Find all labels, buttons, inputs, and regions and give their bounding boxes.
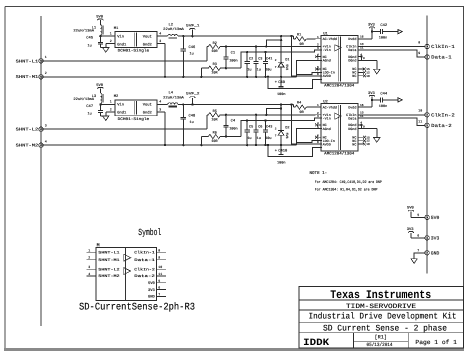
title block frame bbox=[299, 287, 464, 349]
capacitor C41 10u bbox=[264, 51, 266, 53]
svg-text:ClkIn-1: ClkIn-1 bbox=[134, 251, 155, 256]
svg-text:2: 2 bbox=[275, 59, 277, 62]
svg-text:For AMC1204: C49,C410,D1,D2 ar: For AMC1204: C49,C410,D1,D2 are DNP bbox=[315, 180, 383, 185]
capacitor C42 100n (Dvdd bypass) bbox=[372, 31, 381, 33]
svg-text:4: 4 bbox=[159, 31, 161, 35]
svg-text:8: 8 bbox=[317, 141, 319, 144]
svg-text:DCH01-Single: DCH01-Single bbox=[118, 117, 150, 122]
svg-text:AMC1204/1304: AMC1204/1304 bbox=[324, 152, 355, 157]
svg-text:DCH01-Single: DCH01-Single bbox=[118, 49, 150, 54]
svg-text:C4: C4 bbox=[231, 119, 236, 124]
svg-text:SHNT-M1: SHNT-M1 bbox=[16, 75, 39, 80]
svg-text:C47: C47 bbox=[86, 104, 93, 109]
svg-text:R6: R6 bbox=[213, 131, 217, 136]
svg-text:R2: R2 bbox=[213, 41, 217, 46]
ground (input side of M1) bbox=[103, 48, 109, 53]
resistor R1 0R (series to AC-Vhdd) bbox=[293, 36, 295, 39]
svg-text:L4: L4 bbox=[169, 91, 174, 96]
svg-text:ClkIn-2: ClkIn-2 bbox=[431, 113, 455, 119]
svg-text:Vout: Vout bbox=[143, 34, 152, 39]
svg-text:SHNT-L2: SHNT-L2 bbox=[16, 128, 39, 133]
inductor L4 22uH/13mA bbox=[157, 104, 168, 106]
svg-text:C48: C48 bbox=[189, 114, 197, 119]
svg-text:5: 5 bbox=[158, 279, 160, 283]
wire AC-Vhdd branch bbox=[280, 35, 282, 37]
svg-text:7: 7 bbox=[417, 248, 419, 252]
svg-text:16: 16 bbox=[360, 36, 364, 39]
svg-text:11: 11 bbox=[360, 115, 364, 118]
svg-text:1: 1 bbox=[45, 55, 47, 59]
resistor R5 10R bbox=[208, 113, 220, 117]
svg-text:Gnd1: Gnd1 bbox=[117, 111, 127, 116]
ground (input side of M2) bbox=[103, 116, 109, 121]
svg-text:GND: GND bbox=[148, 295, 156, 300]
svg-text:SD Current Sense - 2 phase: SD Current Sense - 2 phase bbox=[323, 324, 447, 334]
svg-text:100n: 100n bbox=[379, 104, 387, 109]
wire PSU1 Gnd2 to isolated ground rail bbox=[157, 43, 165, 45]
svg-text:10R: 10R bbox=[211, 71, 218, 76]
svg-text:5VF_1: 5VF_1 bbox=[186, 23, 200, 28]
wire PSU1 Gnd1 bbox=[106, 43, 115, 45]
power flag 5VF_1 (isolated 5V) bbox=[178, 35, 294, 37]
svg-text:AC-Vhdd: AC-Vhdd bbox=[323, 105, 337, 110]
svg-text:4: 4 bbox=[45, 140, 47, 144]
svg-text:3: 3 bbox=[45, 124, 47, 128]
svg-text:SHNT-L1: SHNT-L1 bbox=[98, 251, 120, 256]
svg-text:1: 1 bbox=[110, 100, 112, 104]
wire PSU2 Gnd2 to isolated ground rail bbox=[157, 111, 165, 113]
svg-text:22uH/13mA: 22uH/13mA bbox=[163, 96, 185, 101]
power flag 5VF_2 (isolated 5V) bbox=[178, 104, 294, 106]
svg-text:10u: 10u bbox=[265, 136, 271, 141]
svg-text:10R: 10R bbox=[211, 139, 218, 144]
svg-text:U1: U1 bbox=[323, 31, 328, 36]
svg-text:AGnd: AGnd bbox=[323, 127, 331, 132]
svg-text:6: 6 bbox=[417, 233, 419, 237]
svg-text:10: 10 bbox=[158, 265, 162, 269]
svg-text:3: 3 bbox=[317, 47, 319, 50]
symbol pin 10 ClkIn-2 bbox=[157, 268, 167, 270]
ground (board) bbox=[411, 259, 417, 264]
svg-text:Gnd1: Gnd1 bbox=[117, 42, 127, 47]
pin stubs U1 right NC bbox=[358, 68, 363, 70]
wire AVSS return bbox=[268, 77, 322, 89]
wire LDO-In pin bbox=[297, 141, 322, 143]
svg-text:7: 7 bbox=[275, 66, 277, 69]
resistor R3 10R bbox=[200, 68, 202, 77]
svg-text:C410: C410 bbox=[278, 149, 288, 154]
symbol pin 6 3V3 bbox=[157, 289, 167, 291]
svg-text:1u: 1u bbox=[190, 120, 194, 125]
svg-text:1u: 1u bbox=[247, 136, 251, 141]
capacitor C48 1u (isolated 5V bypass) bbox=[182, 105, 184, 118]
svg-text:SHNT-M1: SHNT-M1 bbox=[98, 258, 120, 263]
svg-text:D2: D2 bbox=[285, 126, 289, 131]
inductor L1 22uH/13mA (vertical) bbox=[100, 25, 102, 35]
svg-text:U2: U2 bbox=[323, 100, 328, 105]
svg-text:NOTE 1-: NOTE 1- bbox=[310, 171, 328, 176]
capacitor C1 100n (differential) bbox=[225, 45, 227, 47]
svg-text:Vout: Vout bbox=[143, 103, 152, 108]
isolated modulator U1 AMC1204/1304 bbox=[321, 35, 358, 83]
svg-text:9: 9 bbox=[363, 126, 365, 129]
wire AGnd pin bbox=[297, 129, 322, 145]
ground (U1 digital) bbox=[374, 69, 380, 74]
svg-text:D1: D1 bbox=[285, 57, 289, 62]
svg-text:5V0: 5V0 bbox=[148, 281, 156, 286]
svg-text:3V3: 3V3 bbox=[407, 227, 415, 232]
svg-text:C6: C6 bbox=[258, 125, 262, 130]
terminal ClkIn-2 bbox=[425, 113, 429, 117]
ground (U2 digital) bbox=[374, 138, 380, 143]
svg-text:NC: NC bbox=[352, 74, 356, 79]
terminal Data-1 bbox=[425, 55, 429, 59]
svg-text:AMC1204/1304: AMC1204/1304 bbox=[324, 83, 355, 88]
wire ClkIn to bus bbox=[358, 46, 425, 48]
svg-text:5VF_2: 5VF_2 bbox=[186, 92, 200, 97]
svg-text:2: 2 bbox=[110, 108, 112, 112]
svg-text:05/13/2014: 05/13/2014 bbox=[367, 342, 393, 348]
svg-text:C2: C2 bbox=[249, 56, 253, 61]
svg-text:4: 4 bbox=[159, 100, 161, 104]
symbol buffer triangle 2 bbox=[124, 268, 131, 275]
inductor L2 22uH/13mA bbox=[157, 35, 168, 37]
terminal SHNT-M2 bbox=[39, 143, 43, 147]
capacitor C2 1u bbox=[246, 51, 248, 53]
capacitor C3 1u bbox=[255, 45, 257, 47]
svg-text:SD-CurrentSense-2ph-R3: SD-CurrentSense-2ph-R3 bbox=[79, 302, 195, 314]
wire AVSS return bbox=[268, 145, 322, 157]
svg-text:AGnd: AGnd bbox=[323, 59, 331, 64]
dc-dc module M1 DCH01-Single bbox=[115, 32, 157, 48]
svg-text:C1: C1 bbox=[231, 50, 236, 55]
svg-text:22uH/13mA: 22uH/13mA bbox=[73, 29, 95, 34]
svg-text:1: 1 bbox=[110, 31, 112, 35]
symbol pin 8 ClkIn-1 bbox=[157, 251, 167, 253]
svg-text:C46: C46 bbox=[189, 45, 197, 50]
svg-text:100n: 100n bbox=[229, 127, 237, 132]
svg-text:100n: 100n bbox=[379, 36, 387, 41]
capacitor C45 1u bbox=[99, 36, 101, 42]
svg-text:C43: C43 bbox=[266, 125, 272, 130]
svg-text:Data-2: Data-2 bbox=[431, 123, 452, 129]
svg-text:3: 3 bbox=[317, 115, 319, 118]
svg-text:-Vin: -Vin bbox=[323, 116, 331, 121]
svg-text:9: 9 bbox=[158, 256, 160, 260]
svg-text:M: M bbox=[97, 243, 100, 249]
svg-text:100n: 100n bbox=[277, 161, 285, 166]
wire Data to bus bbox=[358, 118, 425, 125]
svg-text:5V6: 5V6 bbox=[285, 133, 289, 139]
wire SHNT-M2 rail (isolated analog ground) bbox=[41, 144, 297, 146]
terminal Data-2 bbox=[425, 123, 429, 127]
terminal 5V0 bbox=[411, 216, 425, 218]
pin stubs U2 right NC bbox=[358, 136, 363, 138]
svg-text:3V3: 3V3 bbox=[431, 236, 440, 242]
svg-text:8: 8 bbox=[317, 73, 319, 76]
terminal ClkIn-1 bbox=[425, 44, 429, 48]
wire ClkIn to bus bbox=[358, 114, 425, 116]
svg-text:1u: 1u bbox=[88, 112, 92, 117]
svg-text:1u: 1u bbox=[257, 68, 261, 73]
terminal SHNT-M1 bbox=[39, 75, 43, 79]
svg-text:1u: 1u bbox=[257, 136, 261, 141]
svg-text:Vin: Vin bbox=[117, 34, 124, 39]
resistor R6 10R bbox=[200, 137, 202, 146]
svg-text:GND: GND bbox=[431, 251, 440, 257]
svg-text:7: 7 bbox=[275, 134, 277, 137]
svg-text:For AMC1304: R1,R4,D1,D2 are D: For AMC1304: R1,R4,D1,D2 are DNP bbox=[315, 187, 378, 192]
svg-text:9: 9 bbox=[418, 51, 420, 55]
svg-text:3: 3 bbox=[159, 108, 161, 112]
svg-text:8: 8 bbox=[158, 248, 160, 252]
symbol pin 3 SHNT bbox=[87, 268, 96, 270]
svg-text:SHNT-M2: SHNT-M2 bbox=[16, 144, 39, 149]
svg-text:SHNT-L2: SHNT-L2 bbox=[98, 268, 119, 273]
svg-text:IDDK: IDDK bbox=[303, 337, 329, 348]
svg-text:1u: 1u bbox=[190, 52, 194, 57]
svg-text:3: 3 bbox=[159, 39, 161, 43]
zener diode D2 5V6 bbox=[280, 105, 282, 131]
node PSU1 Vin bbox=[99, 35, 101, 36]
wire -Vin sense line bbox=[241, 118, 322, 136]
capacitor C4 100n (differential) bbox=[225, 114, 227, 116]
svg-text:2: 2 bbox=[45, 71, 47, 75]
svg-text:C45: C45 bbox=[86, 36, 94, 41]
svg-text:9: 9 bbox=[363, 57, 365, 60]
svg-text:16: 16 bbox=[360, 104, 364, 107]
svg-text:AVDD: AVDD bbox=[323, 74, 331, 79]
svg-text:Data-2: Data-2 bbox=[134, 274, 155, 279]
svg-text:R1: R1 bbox=[297, 32, 301, 37]
wire DGnd pins bbox=[358, 124, 361, 126]
svg-text:Dvdd: Dvdd bbox=[348, 37, 356, 42]
svg-text:[R1]: [R1] bbox=[375, 334, 388, 340]
svg-text:10: 10 bbox=[366, 75, 370, 78]
svg-text:DGnd: DGnd bbox=[348, 59, 356, 64]
svg-text:1: 1 bbox=[317, 36, 319, 39]
right terminal bus bbox=[426, 15, 428, 273]
svg-text:R5: R5 bbox=[213, 109, 217, 114]
svg-text:2: 2 bbox=[275, 128, 277, 131]
svg-text:Dvdd: Dvdd bbox=[348, 105, 356, 110]
svg-text:Gnd2: Gnd2 bbox=[143, 42, 152, 47]
svg-text:Gnd2: Gnd2 bbox=[143, 111, 152, 116]
isolated modulator U2 AMC1204/1304 bbox=[321, 104, 358, 152]
svg-text:Data: Data bbox=[348, 48, 356, 53]
wire SHNT-L2 rail to divider bbox=[41, 128, 207, 130]
zener diode D1 5V6 bbox=[280, 36, 282, 62]
no-connect marks U1 left bbox=[315, 55, 318, 58]
svg-text:-Vin: -Vin bbox=[323, 48, 331, 53]
capacitor C49 100n (AVDD bypass) bbox=[280, 77, 282, 86]
svg-text:C42: C42 bbox=[380, 23, 387, 28]
left terminal bus bbox=[40, 16, 42, 326]
svg-text:Data-1: Data-1 bbox=[431, 55, 452, 61]
svg-text:L2: L2 bbox=[169, 22, 174, 27]
svg-text:Vin: Vin bbox=[117, 103, 124, 108]
svg-text:Symbol: Symbol bbox=[138, 227, 161, 238]
capacitor C44 100n (Dvdd bypass) bbox=[372, 99, 381, 101]
svg-text:M1: M1 bbox=[114, 26, 119, 31]
capacitor C5 1u bbox=[246, 119, 248, 121]
wire SHNT-M1 rail (isolated analog ground) bbox=[41, 76, 297, 78]
svg-text:AC-Vhdd: AC-Vhdd bbox=[323, 37, 337, 42]
svg-text:8: 8 bbox=[418, 40, 420, 44]
svg-text:Page 1 of 1: Page 1 of 1 bbox=[415, 339, 457, 346]
terminal GND bbox=[425, 251, 429, 255]
svg-text:ClkIn-2: ClkIn-2 bbox=[134, 268, 155, 273]
wire DGnd pins bbox=[358, 56, 361, 58]
svg-text:3: 3 bbox=[88, 265, 90, 269]
svg-text:7: 7 bbox=[158, 292, 160, 296]
svg-text:3V3: 3V3 bbox=[148, 288, 156, 293]
terminal 3V3 bbox=[411, 237, 425, 239]
svg-text:100n: 100n bbox=[277, 92, 285, 97]
capacitor C410 100n (AVDD bypass) bbox=[280, 145, 282, 154]
svg-text:C44: C44 bbox=[380, 92, 388, 97]
svg-text:22uH/13mA: 22uH/13mA bbox=[73, 97, 95, 102]
output port arrow (5VF_2 domain 3V3) bbox=[398, 98, 402, 102]
capacitor C6 1u bbox=[255, 114, 257, 116]
svg-text:C5: C5 bbox=[249, 125, 253, 130]
symbol pin 1 SHNT bbox=[87, 251, 96, 253]
wire AVDD supply from isolated 5V bbox=[290, 103, 292, 105]
svg-text:SHNT-L1: SHNT-L1 bbox=[16, 59, 39, 64]
capacitor C43 10u bbox=[264, 119, 266, 121]
svg-text:11: 11 bbox=[418, 120, 422, 124]
resistor R2 10R bbox=[208, 44, 220, 48]
wire AVDD supply from isolated 5V bbox=[290, 35, 292, 37]
symbol pin 9 Data-1 bbox=[157, 259, 167, 261]
capacitor C46 1u (isolated 5V bypass) bbox=[182, 36, 184, 49]
svg-text:2: 2 bbox=[110, 39, 112, 43]
svg-text:4: 4 bbox=[88, 272, 90, 276]
wire SHNT-L1 rail to divider bbox=[41, 60, 207, 62]
symbol pin 7 GND bbox=[157, 295, 167, 297]
svg-text:100n: 100n bbox=[229, 58, 237, 63]
svg-text:C49: C49 bbox=[278, 80, 285, 85]
wire Data to bus bbox=[358, 50, 425, 57]
svg-text:SHNT-M2: SHNT-M2 bbox=[98, 274, 119, 279]
symbol pin 4 SHNT bbox=[87, 275, 96, 277]
wire LDO-In pin bbox=[297, 72, 322, 74]
wire AC-Vhdd branch bbox=[280, 103, 282, 105]
node PSU2 Vin bbox=[99, 103, 101, 104]
symbol pin 2 SHNT bbox=[87, 259, 96, 261]
svg-text:10u: 10u bbox=[265, 68, 271, 73]
wire AGnd pin bbox=[297, 60, 322, 76]
svg-text:5V0: 5V0 bbox=[431, 215, 440, 221]
terminal SHNT-L2 bbox=[39, 127, 43, 131]
svg-text:1u: 1u bbox=[88, 43, 92, 48]
svg-text:M2: M2 bbox=[114, 94, 119, 99]
svg-text:1: 1 bbox=[317, 104, 319, 107]
svg-text:5V6: 5V6 bbox=[285, 64, 289, 70]
svg-text:1u: 1u bbox=[247, 68, 251, 73]
svg-text:2: 2 bbox=[88, 256, 90, 260]
symbol box SD-CurrentSense-2ph-R3 bbox=[96, 248, 157, 301]
svg-text:Texas Instruments: Texas Instruments bbox=[330, 289, 431, 302]
svg-text:C41: C41 bbox=[266, 56, 272, 61]
inductor L3 22uH/13mA (vertical) bbox=[100, 93, 102, 103]
dc-dc module M2 DCH01-Single bbox=[115, 100, 157, 116]
svg-text:R3: R3 bbox=[213, 62, 217, 67]
svg-text:C3: C3 bbox=[258, 56, 262, 61]
capacitor C47 1u bbox=[99, 105, 101, 111]
svg-text:R4: R4 bbox=[297, 101, 301, 106]
svg-text:11: 11 bbox=[158, 272, 162, 276]
svg-text:DGnd: DGnd bbox=[348, 127, 356, 132]
svg-text:1: 1 bbox=[88, 248, 90, 252]
svg-text:5: 5 bbox=[417, 213, 419, 217]
svg-text:ClkIn-1: ClkIn-1 bbox=[431, 44, 455, 50]
no-connect marks U2 left bbox=[315, 123, 318, 126]
symbol buffer triangle 1 bbox=[124, 254, 131, 261]
output port arrow (5VF_1 domain 3V3) bbox=[398, 30, 402, 34]
symbol pin 11 Data-2 bbox=[157, 275, 167, 277]
svg-text:Data: Data bbox=[348, 116, 356, 121]
resistor R4 0R (series to AC-Vhdd) bbox=[293, 105, 295, 108]
wire PSU2 Gnd1 bbox=[106, 111, 115, 113]
svg-text:10: 10 bbox=[418, 109, 422, 113]
svg-text:AVDD: AVDD bbox=[323, 142, 331, 147]
wire -Vin sense line bbox=[241, 50, 322, 68]
svg-text:NC: NC bbox=[352, 142, 356, 147]
svg-text:10R: 10R bbox=[211, 49, 218, 54]
svg-text:6: 6 bbox=[158, 286, 160, 290]
symbol pin 5 5V0 bbox=[157, 282, 167, 284]
svg-text:10: 10 bbox=[366, 143, 370, 146]
svg-text:TIDM-SERVODRIVE: TIDM-SERVODRIVE bbox=[346, 302, 416, 310]
svg-text:Industrial Drive Development K: Industrial Drive Development Kit bbox=[309, 312, 457, 322]
terminal SHNT-L1 bbox=[39, 59, 43, 63]
svg-text:11: 11 bbox=[360, 47, 364, 50]
svg-text:Data-1: Data-1 bbox=[134, 258, 156, 263]
svg-text:10R: 10R bbox=[211, 118, 218, 123]
svg-text:22uH/13mA: 22uH/13mA bbox=[163, 27, 185, 32]
